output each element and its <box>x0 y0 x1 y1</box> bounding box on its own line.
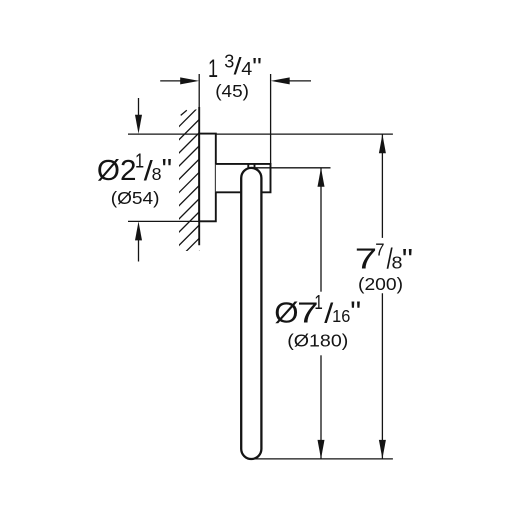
extension line top (y=134.3) <box>128 133 393 135</box>
dim 200 line lower segment + arrow <box>381 293 383 459</box>
svg-text:(45): (45) <box>215 80 249 100</box>
svg-text:4: 4 <box>241 59 252 79</box>
svg-text:7: 7 <box>355 243 377 275</box>
mount arm <box>216 164 271 192</box>
svg-text:1: 1 <box>208 54 218 83</box>
dim 45 left tail + arrow <box>160 80 181 82</box>
wall plate <box>199 134 216 222</box>
svg-text:(Ø180): (Ø180) <box>287 330 348 350</box>
hanger peg right post <box>254 164 256 168</box>
svg-text:": " <box>252 54 262 81</box>
svg-text:": " <box>162 154 172 186</box>
wall line <box>198 74 200 107</box>
svg-text:(200): (200) <box>358 273 403 293</box>
ring bottom extension line (y=458.9) <box>247 458 393 460</box>
svg-text:Ø: Ø <box>274 297 298 329</box>
dim D54 lower stem + arrow <box>138 240 140 262</box>
extension line plate bottom (y=221.4) <box>128 220 199 222</box>
svg-text:16: 16 <box>332 307 350 327</box>
svg-text:": " <box>350 296 361 328</box>
wall hatching top stub <box>181 110 187 115</box>
svg-text:Ø2: Ø2 <box>97 155 137 187</box>
wall hatching <box>176 105 201 275</box>
svg-text:1: 1 <box>135 149 144 172</box>
dim 45 right tail + arrow <box>289 80 312 82</box>
svg-text:(Ø54): (Ø54) <box>111 187 160 207</box>
svg-text:8: 8 <box>152 164 162 184</box>
dim D54 upper stem + arrow <box>138 98 140 116</box>
svg-text:": " <box>402 244 413 276</box>
dim 200 line upper segment + arrow <box>381 134 383 238</box>
dim D180 line lower segment + arrow <box>320 355 322 459</box>
svg-text:1: 1 <box>314 291 322 314</box>
dim D180 line upper segment + arrow <box>320 168 322 292</box>
towel ring <box>241 168 261 459</box>
svg-text:7: 7 <box>375 239 384 260</box>
hanger peg left post <box>247 164 249 168</box>
dim 45 right extension line <box>270 74 272 164</box>
ring top extension line (y=167.8) <box>250 167 331 169</box>
